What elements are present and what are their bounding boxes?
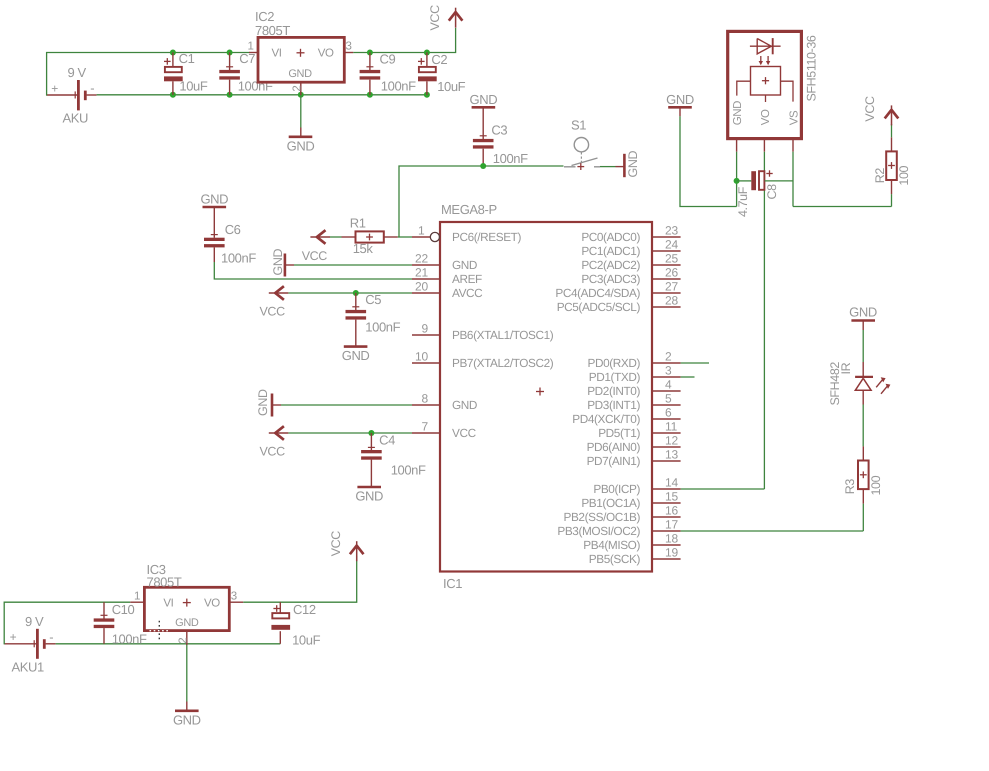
module internal pin brackets [737,81,793,102]
wire VCC to R1 [330,236,342,238]
label 100 (R2) [897,165,911,185]
svg-text:VCC: VCC [302,249,328,263]
svg-text:AVCC: AVCC [452,286,483,300]
IC1 pin 6 PD4(XCK/T0) [572,406,680,427]
ground GND below C4 [355,487,383,504]
junction pin3 rail at C2 [424,50,430,56]
wire C6 to AREF [214,262,412,279]
svg-text:100nF: 100nF [365,320,400,335]
resistor R1 15k [342,216,398,257]
wire GND to IC1 pin22 [294,264,412,266]
ground GND at IC1 pin22 (rotated) [271,249,294,277]
incident light arrows [759,56,771,65]
svg-text:C10: C10 [112,602,135,617]
IC1 pin 1 PC6(/RESET) [412,224,521,245]
svg-text:VCC: VCC [260,445,286,459]
svg-text:R1: R1 [350,216,366,231]
svg-text:PC5(ADC5/SCL): PC5(ADC5/SCL) [557,300,641,314]
svg-text:24: 24 [665,238,678,252]
wire C3 to PC6 net (down to R1 row) [399,166,483,237]
voltage regulator IC2 7805T [255,9,344,82]
IC1 pin 15 PB1(OC1A) [581,490,680,511]
svg-text:PC4(ADC4/SDA): PC4(ADC4/SDA) [555,286,640,300]
svg-text:+: + [51,81,58,95]
svg-text:19: 19 [665,546,678,560]
svg-text:GND: GND [288,68,312,80]
svg-text:10uF: 10uF [292,633,320,648]
IR LED D1 SFH482 [855,362,890,405]
capacitor C7 100nF [219,51,273,95]
label SFH5110-36 [805,35,819,101]
svg-text:2: 2 [665,350,672,364]
capacitor C1 10uF (polarized) [164,51,208,95]
svg-text:18: 18 [665,532,678,546]
supply VCC at AVCC [260,286,289,318]
svg-text:PB5(SCK): PB5(SCK) [589,552,641,566]
svg-text:17: 17 [665,518,678,532]
IC3 pin 1 VI [130,591,144,603]
svg-text:1: 1 [418,224,425,238]
svg-text:PC2(ADC2): PC2(ADC2) [581,258,640,272]
label SFH482 [828,362,842,406]
svg-text:100nF: 100nF [238,78,273,93]
svg-text:VI: VI [163,598,173,610]
svg-text:VCC: VCC [260,305,286,319]
junction bottom rail at C7 [227,92,233,98]
IC3 pin 3 VO [229,591,243,603]
IC1 pin 24 PC1(ADC1) [581,238,680,259]
svg-text:6: 6 [665,406,672,420]
svg-text:14: 14 [665,476,678,490]
supply VCC left of R1 [302,230,330,263]
photodiode inside module [750,38,781,54]
svg-text:GND: GND [452,398,477,412]
module pin VS [792,139,794,152]
IC1 pin 5 PD3(INT1) [587,392,680,413]
junction at C3 bottom [480,163,486,169]
junction bottom rail at C1 [170,92,176,98]
IR receiver module U1 SFH5110-36 body [728,31,802,138]
IC1 pin 19 PB5(SCK) [589,546,681,567]
svg-text:26: 26 [665,266,678,280]
svg-text:PC1(ADC1): PC1(ADC1) [581,244,640,258]
label C8 [765,184,779,200]
junction top rail at C7 [227,50,233,56]
wire PB0(ICP) to IR receiver VO [681,488,765,490]
svg-text:C1: C1 [179,51,195,66]
svg-text:25: 25 [665,252,678,266]
supply VCC above R2 [863,96,898,125]
svg-text:PD3(INT1): PD3(INT1) [587,398,640,412]
junction bottom rail at IC2 pin2 [298,92,304,98]
capacitor C12 10uF (polarized) [271,602,320,647]
ground GND right of S1 (rotated) [616,151,641,178]
svg-text:PC0(ADC0): PC0(ADC0) [581,230,640,244]
IC1 pin 22 GND [412,252,477,273]
svg-text:C8: C8 [765,184,779,200]
svg-text:2: 2 [292,86,304,92]
svg-text:VO: VO [318,48,334,60]
svg-text:9 V: 9 V [25,614,44,629]
svg-text:4: 4 [665,378,672,392]
svg-text:100nF: 100nF [381,78,416,93]
capacitor C6 100nF [204,216,256,266]
IC1 pin 21 AREF [412,266,482,287]
junction AVCC at C5 [353,290,359,296]
svg-text:PD0(RXD): PD0(RXD) [587,356,640,370]
junction bottom rail at C2 [424,92,430,98]
ground GND below IC3 [173,702,201,728]
wire LED anode to R3 [862,405,864,447]
svg-text:VCC: VCC [452,426,477,440]
svg-text:R3: R3 [843,479,857,495]
svg-text:VS: VS [788,110,800,125]
svg-text:GND: GND [452,258,477,272]
svg-text:15: 15 [665,490,678,504]
ground GND below C5 [342,347,370,364]
svg-text:AREF: AREF [452,272,482,286]
capacitor C2 10uF (polarized) [418,52,466,95]
svg-text:5: 5 [665,392,672,406]
resistor R3 100 [858,446,869,503]
svg-text:S1: S1 [571,118,586,133]
IC1 pin 8 GND [412,392,477,413]
wire battery- GND rail (bottom) [97,94,427,96]
svg-text:100nF: 100nF [221,251,256,266]
svg-text:GND: GND [342,348,370,363]
svg-text:PD6(AIN0): PD6(AIN0) [587,440,641,454]
IC1 pin 28 PC5(ADC5/SCL) [557,294,681,315]
svg-text:-: - [90,81,94,96]
capacitor C5 100nF [346,292,401,346]
svg-text:-: - [49,629,53,644]
svg-text:PB7(XTAL2/TOSC2): PB7(XTAL2/TOSC2) [452,356,554,370]
svg-text:PC6(/RESET): PC6(/RESET) [452,230,521,244]
IC3 pin 2 GND [178,631,190,645]
IC1 pin 4 PD2(INT0) [587,378,680,399]
svg-text:C6: C6 [225,222,241,237]
battery AKU1 9V [4,614,55,675]
svg-text:PB2(SS/OC1B): PB2(SS/OC1B) [564,510,641,524]
IC1 pin 9 PB6(XTAL1/TOSC1) [412,322,554,343]
IC1 pin 23 PC0(ADC0) [581,224,680,245]
svg-text:C12: C12 [293,602,316,617]
svg-text:10uF: 10uF [179,78,207,93]
svg-text:13: 13 [665,448,678,462]
svg-text:8: 8 [422,392,429,406]
svg-text:PD2(INT0): PD2(INT0) [587,384,640,398]
capacitor C4 100nF [361,433,426,487]
wire GND to IC1 pin8 [281,404,412,406]
label 100 (R3) [869,475,883,495]
svg-text:22: 22 [415,252,428,266]
svg-text:IC2: IC2 [255,9,274,24]
svg-text:3: 3 [231,591,237,603]
svg-text:GND: GND [626,151,640,178]
wire VCC to AVCC pin20 [288,292,412,294]
svg-text:R2: R2 [873,168,887,184]
svg-text:100: 100 [869,475,883,495]
capacitor C8 4.7uF (polarized, horizontal) [737,170,793,190]
IC1 pin 3 PD1(TXD) [589,364,681,385]
ground GND above C3 [470,92,498,117]
IC1 pin 17 PB3(MOSI/OC2) [557,518,680,539]
svg-text:C4: C4 [379,433,395,448]
supply VCC above IC3 VO [329,531,363,561]
wire IC3 pin2 to GND [186,645,188,702]
IC2 pin 3 VO [344,41,353,53]
svg-text:GND: GND [200,192,228,207]
svg-text:PB6(XTAL1/TOSC1): PB6(XTAL1/TOSC1) [452,328,554,342]
svg-text:23: 23 [665,224,678,238]
svg-text:VO: VO [760,109,772,125]
svg-text:VCC: VCC [329,531,343,557]
svg-text:GND: GND [271,249,285,276]
svg-text:100nF: 100nF [493,151,528,166]
IC1 pin 13 PD7(AIN1) [587,448,681,469]
module pin VO [763,139,765,152]
wire IC2 VO to VCC (pin3 rail) [353,28,455,53]
svg-text:PB0(ICP): PB0(ICP) [593,482,640,496]
ground GND below IC2 [287,128,315,154]
svg-text:7805T: 7805T [147,575,182,590]
IC2 pin 1 VI [248,41,259,53]
supply VCC above C2 [428,5,462,31]
svg-text:100nF: 100nF [112,631,147,646]
svg-text:7805T: 7805T [255,23,290,38]
svg-text:C3: C3 [491,123,507,138]
svg-text:AKU: AKU [63,111,89,126]
label R2 [873,168,887,184]
svg-text:11: 11 [665,420,678,434]
svg-text:4.7uF: 4.7uF [736,186,750,217]
wire R2 bottom [891,194,893,206]
svg-text:PB3(MOSI/OC2): PB3(MOSI/OC2) [557,524,640,538]
wire GND to LED cathode [862,330,864,362]
IC1 pin 20 AVCC [412,280,483,301]
junction bottom rail at C9 [367,92,373,98]
svg-text:PB4(MISO): PB4(MISO) [583,538,640,552]
IC1 pin 12 PD6(AIN0) [587,434,681,455]
svg-text:21: 21 [415,266,428,280]
ground GND left of IR module [666,92,694,116]
svg-text:100: 100 [897,165,911,185]
svg-text:9 V: 9 V [68,65,87,80]
wire stub PD1(TXD) [681,376,695,378]
wire battery- GND rail (bottom) [56,643,281,645]
label 4.7uF [736,186,750,217]
wire GND to module GND pin [680,116,737,206]
svg-text:7: 7 [422,420,429,434]
label IR [839,362,853,374]
IC3 origin marker (dotted cross) [150,621,170,641]
wire stub PD0(RXD) [681,362,709,364]
svg-text:PD4(XCK/T0): PD4(XCK/T0) [572,412,640,426]
wire IC2 pin2 to GND [300,95,302,128]
junction pin3 rail at C9 [367,50,373,56]
IC1 pin 2 PD0(RXD) [587,350,680,371]
junction top rail at C1 [170,50,176,56]
capacitor C9 100nF [360,52,417,95]
svg-text:VI: VI [272,48,282,60]
svg-text:SFH482: SFH482 [828,362,842,406]
svg-text:3: 3 [665,364,672,378]
svg-text:GND: GND [355,489,383,504]
capacitor C3 100nF [473,117,528,167]
capacitor C10 100nF [94,602,147,646]
svg-text:PD5(T1): PD5(T1) [598,426,640,440]
IC1 pin 7 VCC [412,420,477,441]
wire module VS down [792,152,794,207]
svg-text:12: 12 [665,434,678,448]
svg-text:C5: C5 [365,292,381,307]
svg-text:PD1(TXD): PD1(TXD) [589,370,641,384]
svg-text:GND: GND [173,712,201,727]
IC1 pin 16 PB2(SS/OC1B) [564,504,681,525]
wire PB3(MOSI/OC2) to R3 [681,530,864,532]
module pin GND [736,139,738,152]
svg-text:GND: GND [849,305,877,320]
IC2 pin 2 GND [292,82,304,95]
svg-text:PD7(AIN1): PD7(AIN1) [587,454,641,468]
svg-text:16: 16 [665,504,678,518]
svg-text:28: 28 [665,294,678,308]
wire C3 to S1 [483,165,563,167]
ground GND above LED [849,305,877,331]
module pin label GND [732,101,744,125]
svg-text:PB1(OC1A): PB1(OC1A) [581,496,640,510]
label R3 [843,479,857,495]
svg-text:C7: C7 [239,51,255,66]
svg-text:GND: GND [256,389,270,416]
svg-text:3: 3 [346,41,352,53]
svg-text:GND: GND [470,92,498,107]
svg-text:GND: GND [287,138,315,153]
svg-text:10: 10 [415,350,428,364]
amplifier block inside module [751,67,781,96]
wire VCC to pin7 [288,432,412,434]
wire IC3 VO to VCC [243,556,356,602]
junction pin7 wire at C4 [368,430,374,436]
svg-text:1: 1 [248,41,254,53]
ground GND at IC1 pin8 (rotated) [256,389,281,416]
battery AKU 9V [47,65,97,126]
wire module VO down to PB0 [763,152,765,489]
svg-text:GND: GND [666,92,694,107]
microcontroller IC1 MEGA8-P body [440,202,652,591]
svg-text:IC1: IC1 [443,576,462,591]
svg-text:VCC: VCC [428,5,442,31]
svg-text:20: 20 [415,280,428,294]
wire battery+ to IC3 VI (top rail) [4,602,130,644]
svg-text:VCC: VCC [863,96,877,122]
svg-text:PC3(ADC3): PC3(ADC3) [581,272,640,286]
wire battery+ to IC2 VI (top rail) [47,53,250,96]
IC1 pin 11 PD5(T1) [598,420,680,441]
junction module GND at C8 [734,178,740,184]
supply VCC at IC1 pin7 [260,426,289,458]
svg-text:100nF: 100nF [391,463,426,478]
svg-text:SFH5110-36: SFH5110-36 [805,35,819,101]
svg-text:10uF: 10uF [437,79,465,94]
svg-text:C9: C9 [380,52,396,67]
switch S1 [564,118,600,171]
svg-text:15k: 15k [353,241,374,256]
svg-text:C2: C2 [431,52,447,67]
svg-text:+: + [10,630,17,644]
svg-text:GND: GND [732,101,744,125]
voltage regulator IC3 7805T [144,562,229,631]
svg-text:27: 27 [665,280,678,294]
IC1 pin 18 PB4(MISO) [583,532,680,553]
ground GND above C6 [200,192,228,217]
IC1 pin 25 PC2(ADC2) [581,252,680,273]
IC1 pin 27 PC4(ADC4/SDA) [555,280,680,301]
svg-text:1: 1 [134,591,140,603]
wire R2 to VCC [891,124,893,137]
wire S1 to GND [600,166,616,168]
svg-text:9: 9 [422,322,429,336]
IC1 pin 10 PB7(XTAL2/TOSC2) [412,350,554,371]
wire R3 to PB3 row [862,504,864,531]
module pin label VO [760,109,772,125]
wire R1 to IC1 PC6(/RESET) [398,236,412,238]
IC1 pin 14 PB0(ICP) [593,476,680,497]
IC1 pin 26 PC3(ADC3) [581,266,680,287]
svg-text:MEGA8-P: MEGA8-P [441,202,497,217]
svg-text:2: 2 [178,638,190,644]
resistor R2 100 [886,137,897,194]
wire module GND pin down [736,152,738,207]
svg-text:AKU1: AKU1 [12,660,45,675]
svg-text:VO: VO [204,598,220,610]
wire module VS to R2 [793,206,892,208]
svg-text:GND: GND [175,617,199,629]
module pin label VS [788,110,800,125]
